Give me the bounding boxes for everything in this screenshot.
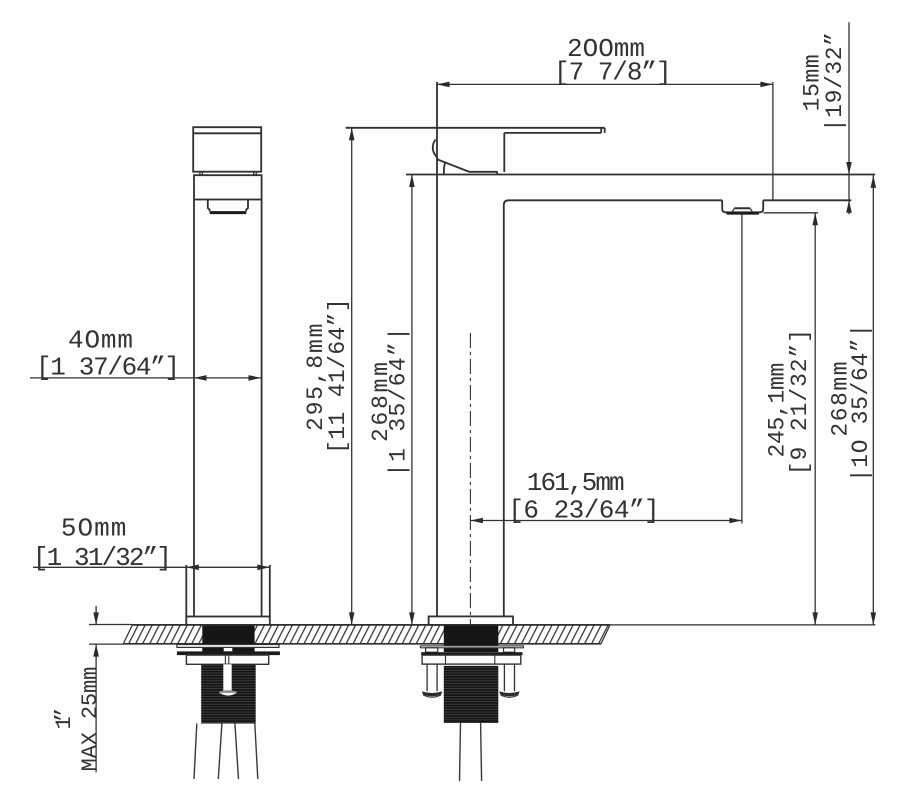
left view: handle block inner line [193,132,261,134]
arrowheads 161.5 [470,518,483,524]
left threaded shank [201,664,256,723]
dim 40mm [30,377,194,379]
svg-text:[6 23/64”]: [6 23/64”] [508,496,659,526]
handle pivot crescent [433,140,498,175]
svg-text:[1 37/64”]: [1 37/64”] [36,353,180,383]
aerator [722,200,763,212]
dim 268mm left [411,175,413,625]
svg-text:[9 21/32”]: [9 21/32”] [787,329,813,475]
centerline of right faucet [469,333,471,625]
arrowheads 268 right [871,175,877,188]
dim 268mm right [872,175,874,625]
right washer plate [420,646,523,648]
arrowheads 15mm [846,162,852,175]
left black flange bar [177,651,280,655]
lever bottom and tip cap [504,132,601,134]
spout underside right segment (15mm ext) [763,199,851,201]
left view: spout tip [208,200,210,212]
arrowheads 200mm [437,82,450,88]
right supply pipes [460,723,461,781]
dim 15mm [848,22,850,174]
svg-text:5Omm: 5Omm [61,514,126,544]
left shank through deck [202,626,254,652]
dim 295.8mm [351,128,353,625]
handle lever top / 295.8 ext [346,127,605,129]
left view: handle block [193,127,261,172]
dimension arrowheads [93,82,876,657]
left hoses [194,724,258,780]
left view: neck stems [200,172,256,176]
svg-text:|1 35/64”|: |1 35/64”| [386,327,412,477]
right threaded shank [444,666,499,723]
svg-text:|19/32”: |19/32” [822,32,848,132]
left shank slot [223,664,231,691]
top line: ext + body top + spout top + 15mm ext [406,174,875,176]
left view: spout housing body [194,175,262,199]
arrowheads 40mm [194,375,207,381]
left shank top notch [224,648,233,651]
svg-text:|1O 35/64”|: |1O 35/64”| [848,324,874,482]
svg-text:[1 31/32”]: [1 31/32”] [33,543,172,573]
handle support front [503,133,505,172]
arrowheads 268 left [409,175,415,188]
arrowheads 25mm [93,612,99,625]
left view: base 50mm section [185,565,187,617]
deck outline [123,625,875,644]
svg-text:MAX 25mm: MAX 25mm [78,667,103,772]
dim 161.5mm [470,520,742,522]
svg-text:1’’: 1’’ [52,706,77,730]
dim 25mm [95,606,97,625]
right base plate [429,616,513,625]
dim 50mm [33,566,186,568]
dim 200mm [437,83,773,85]
deck reference line to the right [610,624,876,626]
svg-text:161,5mm: 161,5mm [527,468,625,498]
svg-text:4Omm: 4Omm [68,326,133,356]
svg-text:[11 41/64”]: [11 41/64”] [325,298,351,454]
left washer plate [177,645,279,648]
body left edge + 200mm left extension [436,82,438,616]
right black flange bar [421,652,522,655]
arrowheads 295.8 [349,128,355,141]
left nut [186,655,268,664]
handle base front curve [444,162,445,174]
right stud feet [422,691,520,697]
right nut [422,655,521,664]
arrowheads 245.1 [812,213,818,226]
right bolt heads [426,648,438,652]
dim 245.1mm [814,213,816,625]
svg-text:[7 7/8”]: [7 7/8”] [554,58,672,88]
left slot dome washer [219,690,237,694]
left view: base plate [186,617,269,625]
left view: column sides [193,200,195,617]
arrowheads 50mm [186,565,199,571]
right side studs [427,664,514,691]
deck board with hatch [123,625,610,644]
spout bottom corner + underside left segment [504,200,722,616]
